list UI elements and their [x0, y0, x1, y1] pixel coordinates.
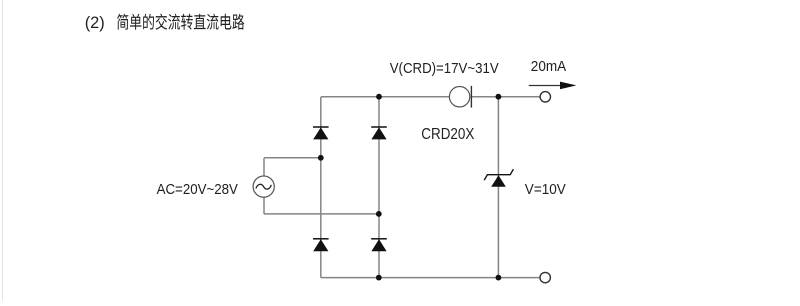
svg-text:AC=20V~28V: AC=20V~28V [157, 182, 239, 198]
svg-text:20mA: 20mA [531, 59, 567, 75]
svg-text:V(CRD)=17V~31V: V(CRD)=17V~31V [390, 61, 499, 77]
svg-text:CRD20X: CRD20X [421, 126, 474, 143]
svg-text:V=10V: V=10V [525, 182, 566, 198]
svg-text:(2): (2) [85, 14, 105, 32]
